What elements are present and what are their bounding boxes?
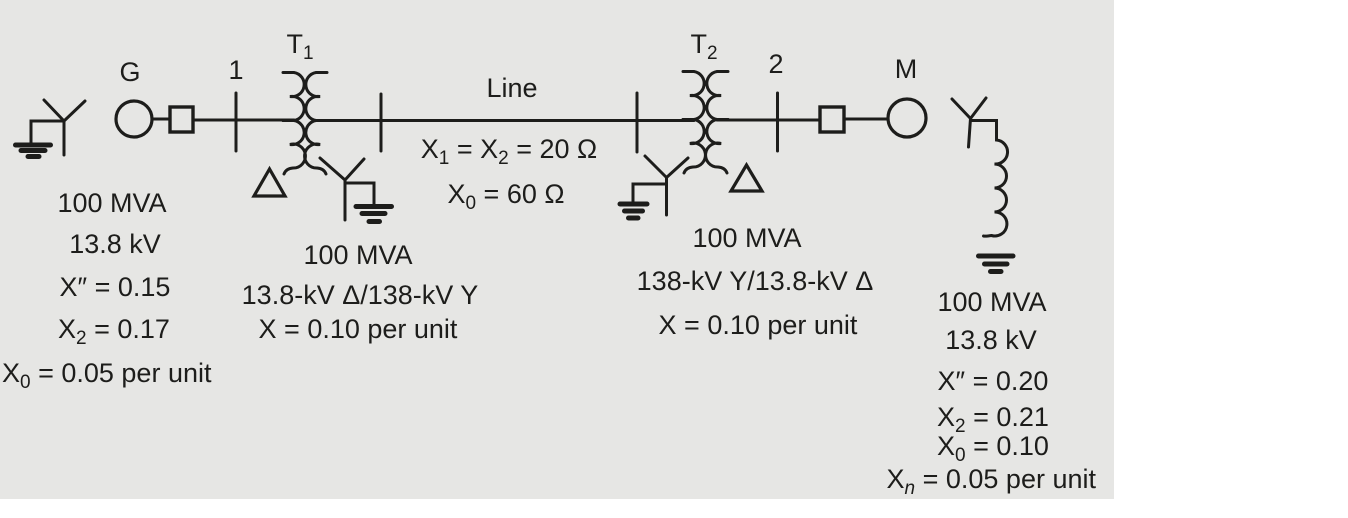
wire [717,119,820,122]
wire [152,118,170,121]
transformer T1 [283,73,327,175]
svg-text:X = 0.10 per unit: X = 0.10 per unit [659,310,858,340]
svg-text:X0 = 60 Ω: X0 = 60 Ω [447,179,564,214]
svg-text:100 MVA: 100 MVA [57,188,166,218]
wye (T1 secondary) [320,158,364,220]
svg-text:G: G [119,57,140,87]
svg-text:1: 1 [228,55,243,85]
ground (generator neutral) [16,100,86,157]
bus tick (line, right) [636,93,639,152]
wire (line section) [316,119,694,122]
svg-text:Line: Line [486,73,537,103]
circuit breaker (generator) [170,107,193,132]
ground (T1 neutral) [345,183,392,222]
generator G [116,101,152,137]
svg-text:13.8-kV Δ/138-kV Y: 13.8-kV Δ/138-kV Y [242,280,479,310]
generator ratings text [2,188,212,393]
transformer T2 [683,72,728,174]
ground (T2 neutral) [620,184,667,218]
ground (motor reactor) [979,256,1014,272]
svg-text:X″ = 0.20: X″ = 0.20 [938,366,1049,396]
grounding reactor (motor neutral) [971,121,1008,237]
svg-text:X″ = 0.15: X″ = 0.15 [60,272,171,302]
transformer T2 ratings text [637,223,874,340]
line impedance text [421,134,597,214]
svg-text:2: 2 [768,49,783,79]
svg-text:Xn = 0.05 per unit: Xn = 0.05 per unit [887,464,1097,499]
svg-text:100 MVA: 100 MVA [937,287,1046,317]
svg-text:X = 0.10 per unit: X = 0.10 per unit [259,314,458,344]
bus 1 [235,93,238,151]
wye (motor) [952,98,986,147]
svg-text:13.8 kV: 13.8 kV [945,325,1037,355]
bus 2 [776,93,779,151]
delta (T1 primary) [254,169,285,196]
wire [844,118,888,121]
svg-text:13.8 kV: 13.8 kV [69,229,161,259]
transformer T1 ratings text [242,240,479,344]
svg-text:100 MVA: 100 MVA [692,223,801,253]
svg-text:X2 = 0.17: X2 = 0.17 [58,314,170,349]
circuit breaker (motor) [820,107,844,132]
wire [193,119,294,122]
delta (T2 secondary) [731,165,762,191]
svg-text:X0 = 0.10: X0 = 0.10 [937,431,1049,466]
svg-text:X0 = 0.05 per unit: X0 = 0.05 per unit [2,358,212,393]
motor ratings text [887,287,1097,499]
svg-text:138-kV Y/13.8-kV Δ: 138-kV Y/13.8-kV Δ [637,266,874,296]
motor M [888,99,926,137]
wye (T2 primary) [645,156,688,215]
svg-text:M: M [895,54,918,84]
bus tick (line, left) [380,94,383,151]
svg-text:100 MVA: 100 MVA [303,240,412,270]
